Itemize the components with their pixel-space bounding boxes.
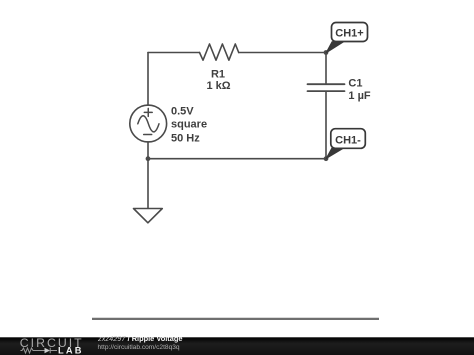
svg-text:zxz4297 / Ripple Voltage: zxz4297 / Ripple Voltage xyxy=(97,334,182,343)
svg-text:C1: C1 xyxy=(348,77,362,89)
svg-text:1 µF: 1 µF xyxy=(348,90,371,102)
svg-text:LAB: LAB xyxy=(58,346,84,355)
svg-text:1 kΩ: 1 kΩ xyxy=(206,80,230,92)
svg-text:R1: R1 xyxy=(211,69,225,81)
svg-text:square: square xyxy=(171,118,207,130)
svg-text:CH1-: CH1- xyxy=(335,135,361,147)
svg-text:50 Hz: 50 Hz xyxy=(171,132,200,144)
svg-text:CH1+: CH1+ xyxy=(335,28,363,40)
svg-text:http://circuitlab.com/c2t8q3q: http://circuitlab.com/c2t8q3q xyxy=(98,344,180,351)
svg-text:0.5V: 0.5V xyxy=(171,106,194,118)
